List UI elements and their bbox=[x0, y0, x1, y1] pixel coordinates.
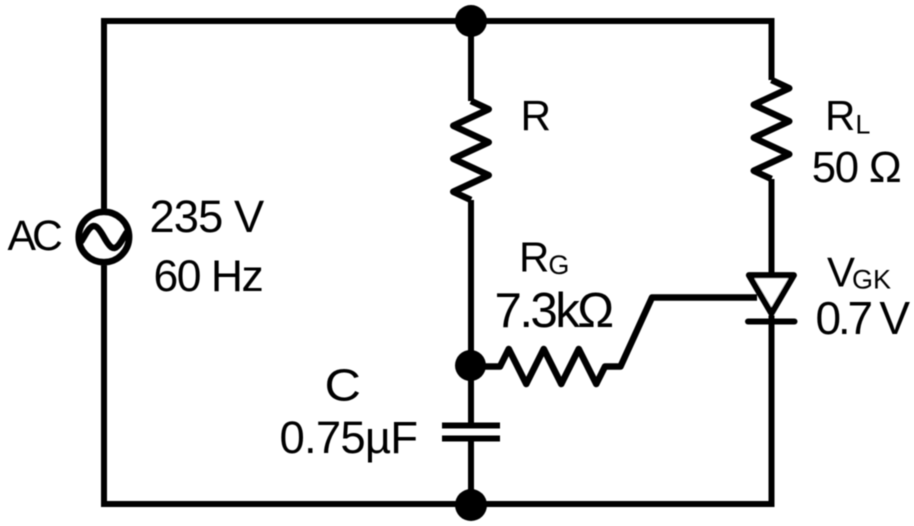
svg-text:60 Hz: 60 Hz bbox=[154, 252, 263, 301]
svg-text:R: R bbox=[521, 92, 552, 139]
svg-text:AC: AC bbox=[8, 212, 62, 260]
svg-text:7.3kΩ: 7.3kΩ bbox=[495, 283, 613, 338]
svg-text:0.7 V: 0.7 V bbox=[816, 292, 911, 344]
svg-text:50 Ω: 50 Ω bbox=[812, 143, 901, 192]
svg-text:C: C bbox=[325, 361, 361, 411]
svg-text:0.75µF: 0.75µF bbox=[280, 412, 418, 463]
svg-text:235 V: 235 V bbox=[150, 191, 266, 242]
